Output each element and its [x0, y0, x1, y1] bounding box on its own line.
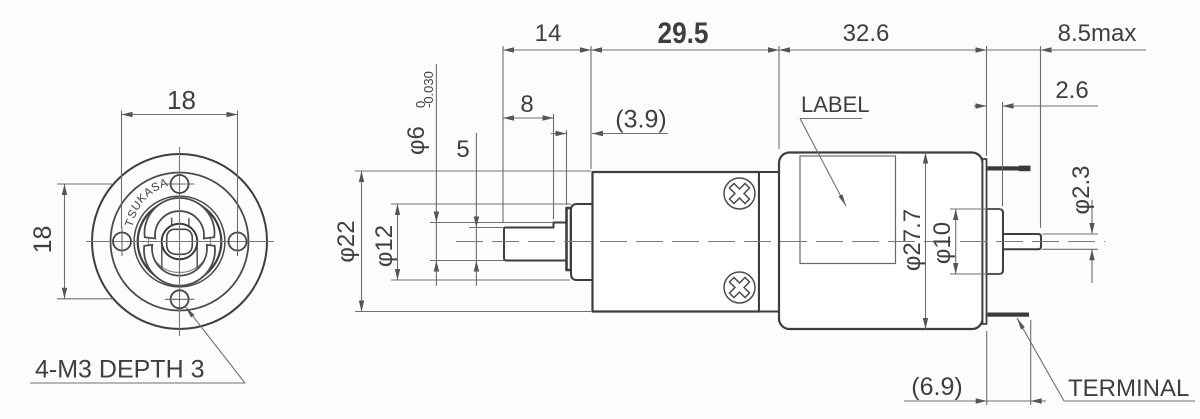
- svg-text:φ2.3: φ2.3: [1068, 166, 1095, 215]
- mid light circle: [149, 211, 211, 273]
- hole boss circle: [162, 224, 198, 260]
- screw bottom: [724, 272, 755, 303]
- svg-text:φ6: φ6: [403, 126, 430, 155]
- terminal top: [988, 166, 1031, 170]
- svg-text:φ10: φ10: [929, 222, 956, 264]
- shaft boss phi12: [571, 204, 593, 280]
- svg-text:(6.9): (6.9): [911, 373, 962, 401]
- svg-text:4-M3 DEPTH 3: 4-M3 DEPTH 3: [35, 356, 204, 384]
- ext line motor rear: [986, 46, 988, 156]
- dimension 18 top (face): [122, 111, 238, 229]
- svg-text:32.6: 32.6: [843, 20, 890, 47]
- svg-text:18: 18: [167, 85, 196, 115]
- svg-text:φ27.7: φ27.7: [899, 209, 926, 271]
- svg-text:29.5: 29.5: [658, 17, 709, 50]
- leader TERMINAL: [1017, 318, 1064, 401]
- hub key edges top: [172, 218, 189, 227]
- ext line shaft tip: [502, 46, 504, 222]
- rear shaft phi2.3: [1003, 234, 1041, 249]
- plate outer circle: [134, 196, 225, 287]
- svg-text:TERMINAL: TERMINAL: [1068, 375, 1189, 402]
- mounting hole bottom: [171, 290, 189, 308]
- svg-text:LABEL: LABEL: [801, 92, 870, 117]
- svg-text:14: 14: [535, 20, 562, 47]
- screw top: [724, 178, 755, 303]
- leader 4-M3: [185, 307, 245, 383]
- svg-text:(3.9): (3.9): [615, 106, 666, 134]
- mounting hole left: [113, 175, 247, 308]
- hole tick top: [165, 183, 195, 185]
- svg-text:18: 18: [29, 226, 57, 254]
- gearbox body: [593, 172, 760, 312]
- hole tick left: [121, 227, 123, 256]
- wing bands: [144, 198, 215, 286]
- adapter ring: [759, 172, 779, 312]
- flange circle: [111, 173, 249, 311]
- leader LABEL: [800, 118, 862, 120]
- bottom wing band: [144, 245, 215, 286]
- motor body: [779, 153, 983, 330]
- svg-text:8.5max: 8.5max: [1058, 20, 1137, 47]
- hub key edges bottom: [162, 247, 197, 270]
- svg-text:8: 8: [520, 91, 533, 118]
- mounting hole top: [171, 175, 189, 193]
- svg-text:φ12: φ12: [371, 225, 398, 267]
- centerline side view: [456, 241, 1105, 243]
- label rectangle on motor: [800, 156, 896, 264]
- svg-text:5: 5: [456, 136, 469, 163]
- centerline vertical face view: [179, 147, 181, 336]
- dim line top row: [503, 49, 1146, 51]
- dimension 18 left (face): [57, 184, 113, 299]
- hole tick right: [237, 227, 239, 256]
- rear boss phi10: [987, 209, 1004, 274]
- terminal bottom: [988, 313, 1030, 317]
- plate inner circle: [138, 200, 222, 284]
- motor end cap: [983, 159, 987, 324]
- shaft hole D-shape: [167, 229, 193, 254]
- TSUKASA curved text: [123, 177, 169, 229]
- ext line motor front: [778, 46, 780, 149]
- svg-text:φ22: φ22: [333, 220, 360, 262]
- hole tick bottom: [165, 298, 195, 300]
- ext line rear shaft tip: [1040, 46, 1042, 228]
- centerline horizontal face view: [86, 241, 274, 243]
- svg-text:-0.030: -0.030: [421, 71, 436, 108]
- top wing band: [145, 198, 215, 239]
- shaft washer: [567, 208, 572, 270]
- motor outer circle: [92, 154, 267, 329]
- ext line gearbox front: [590, 46, 592, 169]
- mounting hole right: [229, 233, 247, 251]
- output shaft with flat: [504, 223, 567, 261]
- svg-text:2.6: 2.6: [1055, 77, 1088, 104]
